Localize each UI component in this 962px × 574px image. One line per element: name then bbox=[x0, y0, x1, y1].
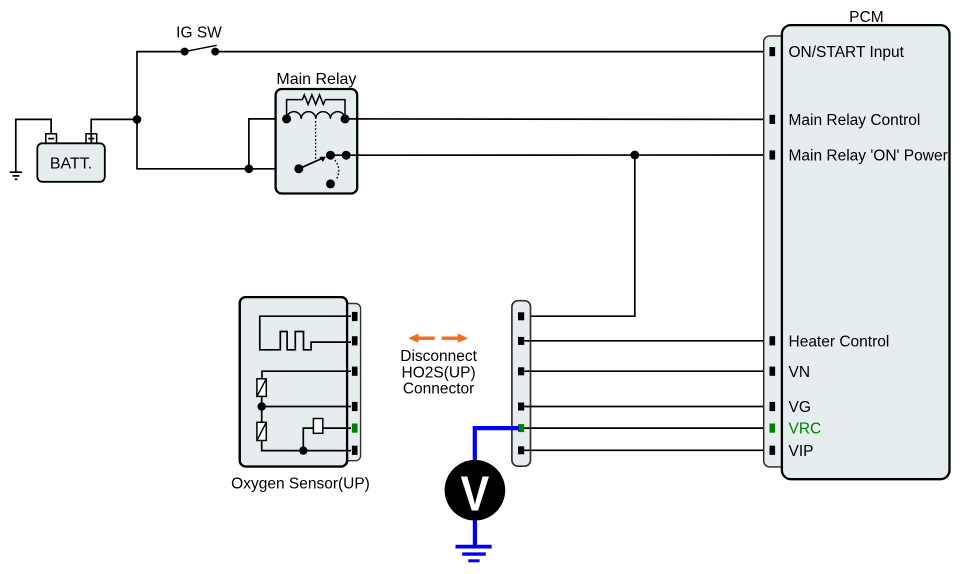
wire node D to sensor pin4 bbox=[262, 406, 351, 408]
relay plunger dashed link bbox=[315, 121, 317, 160]
wire node B up to relay coil bbox=[249, 119, 287, 169]
battery BATT. bbox=[37, 143, 105, 182]
svg-text:BATT.: BATT. bbox=[50, 156, 92, 173]
wire resistor to node D bbox=[261, 396, 263, 406]
PCM pin VG bbox=[770, 402, 776, 411]
wire node E up to trim component bbox=[303, 428, 313, 451]
wire relay coil to PCM Main Relay Control bbox=[345, 118, 770, 121]
svg-text:Heater Control: Heater Control bbox=[789, 333, 890, 350]
wire mid pin3 to PCM VN bbox=[524, 370, 769, 372]
sensor pin 6 bbox=[352, 446, 358, 455]
svg-text:HO2S(UP): HO2S(UP) bbox=[402, 364, 476, 381]
PCM pin VRC (green) bbox=[770, 424, 776, 433]
battery negative terminal bbox=[46, 134, 57, 144]
node D (junction sensor) bbox=[258, 402, 266, 410]
sensor pin 4 bbox=[352, 402, 358, 411]
svg-text:Main Relay: Main Relay bbox=[276, 71, 356, 88]
wire mid pin4 to PCM VG bbox=[524, 406, 769, 408]
sensor pin 5 (green) bbox=[352, 424, 358, 433]
svg-text:V: V bbox=[461, 466, 490, 521]
wire sensor pin3 to resistor bbox=[262, 371, 351, 379]
wire battery negative to ground bbox=[16, 119, 51, 172]
resistor (sensor upper) bbox=[257, 379, 266, 397]
PCM pin ON/START Input bbox=[770, 47, 776, 56]
svg-text:Main Relay Control: Main Relay Control bbox=[789, 112, 921, 129]
svg-text:ON/START Input: ON/START Input bbox=[789, 44, 905, 61]
pin 1 (mid connector) bbox=[518, 312, 524, 320]
voltmeter V bbox=[445, 460, 506, 521]
wire mid pin5 to PCM VRC bbox=[524, 427, 769, 429]
svg-text:VG: VG bbox=[789, 399, 811, 416]
resistor (sensor lower) bbox=[257, 422, 266, 440]
PCM box bbox=[782, 9, 950, 479]
relay switch bbox=[294, 151, 350, 189]
pin 5 (mid connector, VRC, green) bbox=[518, 424, 524, 432]
relay box Main Relay bbox=[276, 71, 358, 194]
coil (relay) bbox=[287, 112, 345, 119]
node A (junction battery/IG SW/relay feed) bbox=[133, 115, 142, 124]
PCM pin Heater Control bbox=[770, 336, 776, 345]
blue test lead from VRC pin bbox=[475, 428, 519, 461]
wire node C down to connector pin 1 bbox=[524, 155, 635, 316]
sensor box redrawn over strip left part bbox=[240, 297, 347, 466]
wire node A down to relay switch row bbox=[137, 119, 249, 168]
wire relay switch to PCM Main Relay 'ON' Power bbox=[331, 154, 770, 156]
node B (junction coil feed / switch feed) bbox=[245, 165, 254, 174]
wire lower resistor to node E and pin6 bbox=[262, 441, 351, 451]
svg-text:Main Relay 'ON' Power: Main Relay 'ON' Power bbox=[789, 148, 948, 165]
svg-text:VN: VN bbox=[789, 364, 811, 381]
svg-text:Disconnect: Disconnect bbox=[400, 348, 477, 365]
blue lead voltmeter to ground bbox=[473, 521, 477, 547]
pin 6 (mid connector) bbox=[518, 446, 524, 454]
wire battery positive to node A bbox=[91, 119, 137, 134]
svg-text:Oxygen Sensor(UP): Oxygen Sensor(UP) bbox=[231, 475, 370, 492]
svg-text:IG SW: IG SW bbox=[176, 25, 222, 42]
PCM pin Main Relay 'ON' Power bbox=[770, 150, 776, 159]
wire mid pin2 to PCM Heater Control bbox=[524, 340, 769, 342]
svg-text:VRC: VRC bbox=[789, 421, 822, 438]
pin 2 (mid connector) bbox=[518, 337, 524, 345]
resistor (relay, parallel with coil) bbox=[287, 95, 345, 119]
ground (battery negative) bbox=[10, 172, 22, 179]
PCM pin Main Relay Control bbox=[770, 115, 776, 124]
pin 4 (mid connector) bbox=[518, 403, 524, 411]
node E (junction sensor bottom) bbox=[299, 446, 307, 454]
oxygen sensor box bbox=[231, 297, 370, 492]
PCM pin VN bbox=[770, 367, 776, 376]
wire node A up to IG SW bbox=[137, 52, 185, 120]
svg-text:VIP: VIP bbox=[789, 443, 814, 460]
connector (middle, HO2S harness side) bbox=[512, 301, 531, 467]
disconnect arrows (orange) bbox=[408, 334, 468, 343]
wire IG SW to PCM ON/START Input pin bbox=[215, 51, 769, 53]
sensor connector strip bbox=[340, 304, 361, 461]
switch IG SW bbox=[176, 25, 222, 56]
sensor pin 3 bbox=[352, 367, 358, 376]
svg-text:Connector: Connector bbox=[403, 380, 475, 397]
sensor pin 2 bbox=[352, 336, 358, 345]
sensor pin 1 bbox=[352, 312, 358, 321]
svg-text:PCM: PCM bbox=[849, 9, 883, 26]
node C (junction on Main Relay 'ON' Power wire) bbox=[630, 151, 639, 160]
wire node D down to lower resistor bbox=[261, 407, 263, 423]
trim component (sensor) bbox=[313, 419, 322, 434]
ground (voltmeter, blue) bbox=[456, 547, 492, 561]
PCM pin VIP bbox=[770, 446, 776, 455]
pin 3 (mid connector) bbox=[518, 367, 524, 375]
sensing element waveform bbox=[260, 316, 351, 350]
battery positive terminal bbox=[86, 134, 97, 144]
PCM connector strip bbox=[764, 36, 788, 467]
label Disconnect HO2S(UP) Connector bbox=[400, 348, 477, 397]
wire node B to relay switch common bbox=[249, 168, 299, 170]
wire mid pin6 to PCM VIP bbox=[524, 449, 769, 451]
wire trim component to sensor pin5 bbox=[323, 427, 351, 429]
